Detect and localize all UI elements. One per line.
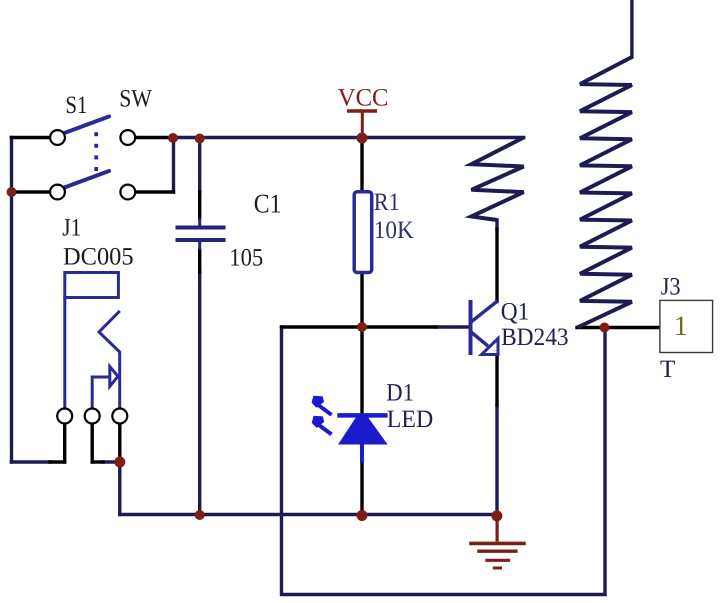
svg-text:D1: D1: [386, 380, 414, 407]
svg-text:C1: C1: [254, 188, 282, 218]
svg-text:Q1: Q1: [501, 298, 530, 325]
svg-text:J1: J1: [62, 214, 81, 241]
svg-text:J3: J3: [661, 273, 681, 300]
svg-text:LED: LED: [387, 406, 433, 433]
svg-text:1: 1: [674, 311, 688, 342]
svg-text:SW: SW: [119, 85, 152, 112]
svg-text:T: T: [660, 356, 675, 383]
svg-text:BD243: BD243: [501, 324, 568, 351]
svg-text:105: 105: [229, 244, 263, 271]
svg-text:VCC: VCC: [338, 85, 389, 112]
svg-text:R1: R1: [374, 189, 400, 216]
svg-text:DC005: DC005: [63, 244, 134, 271]
svg-text:10K: 10K: [374, 217, 414, 244]
svg-text:S1: S1: [65, 92, 87, 119]
